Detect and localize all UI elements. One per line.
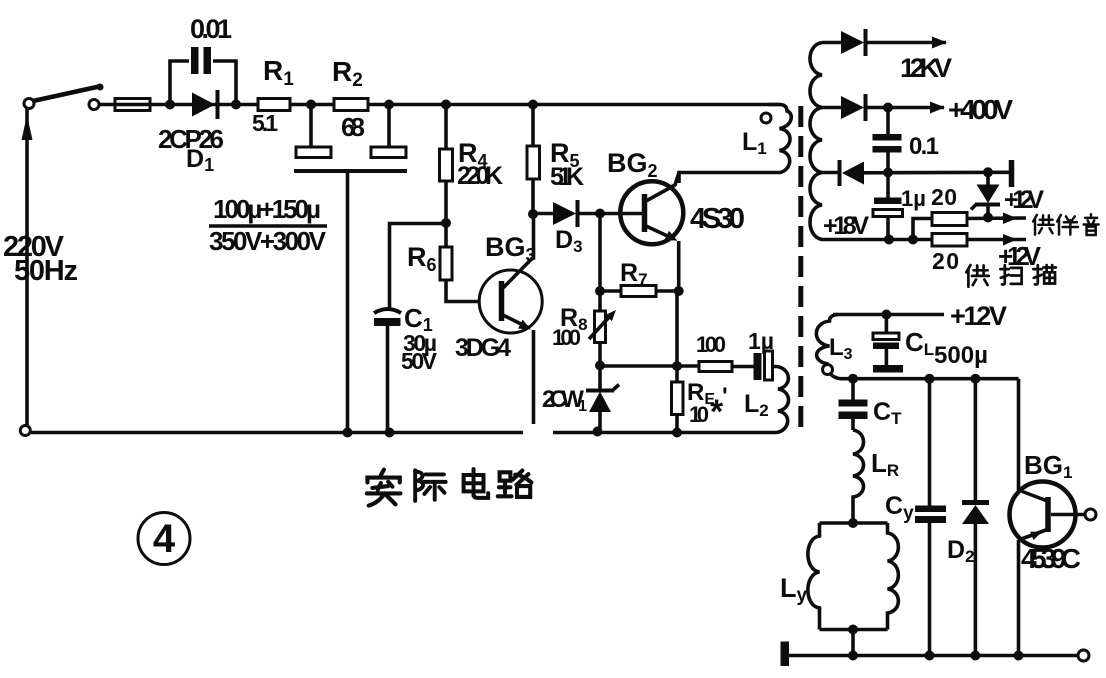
- node upper20 left: [908, 235, 918, 245]
- inductor L3: [816, 315, 841, 379]
- circled 4: [138, 513, 190, 565]
- yoke Ly: [808, 523, 899, 656]
- svg-text:10: 10: [689, 402, 709, 427]
- diode D2: [962, 379, 989, 656]
- switch S: [33, 84, 104, 110]
- svg-text:12KV: 12KV: [900, 53, 952, 83]
- svg-text:350V+300V: 350V+300V: [209, 226, 327, 256]
- capacitor 1u secondary: [873, 173, 903, 240]
- wire: [732, 365, 754, 369]
- resistor R4 220K: [440, 105, 453, 224]
- svg-text:100: 100: [696, 332, 726, 357]
- node rail RE: [672, 428, 682, 438]
- diode rectifier +400V: [822, 94, 945, 121]
- node D2: [970, 374, 980, 384]
- capacitor 1u damping: [754, 351, 773, 380]
- transformer core dashed: [798, 106, 803, 427]
- node R7 left: [595, 286, 605, 296]
- diode tap3 left-pointing: [822, 160, 1009, 186]
- node rail C1: [385, 428, 395, 438]
- capacitor CL 500u: [873, 315, 903, 373]
- 220V 50Hz source arrow: [22, 109, 33, 425]
- wire +12V line L3: [833, 313, 944, 317]
- svg-text:50V: 50V: [401, 348, 438, 374]
- svg-text:4: 4: [153, 517, 176, 561]
- caption: shi ji dian lu: [367, 469, 532, 505]
- resistor R8 100 adjustable: [589, 291, 616, 366]
- svg-text:100µ+150µ: 100µ+150µ: [213, 194, 321, 224]
- node A3: [306, 100, 316, 110]
- node R4-R6: [441, 218, 451, 228]
- ground rail bottom right: [781, 642, 1090, 667]
- inductor L1 primary: [679, 105, 791, 184]
- wire to C1: [390, 224, 447, 309]
- svg-text:20: 20: [932, 248, 959, 274]
- resistor 20 upper: [913, 213, 1026, 240]
- node rail 2CW1: [593, 427, 603, 437]
- node top R4: [441, 100, 451, 110]
- capacitor Cy: [915, 379, 946, 656]
- node A4: [384, 100, 394, 110]
- svg-text:100: 100: [552, 325, 581, 350]
- resistor RE 10: [672, 291, 684, 433]
- wire bottom rail mid: [553, 431, 777, 435]
- node rail BG1: [1014, 651, 1024, 661]
- node top R5: [528, 100, 538, 110]
- node Ly bottom: [848, 625, 858, 635]
- resistor R5 51K: [527, 105, 540, 215]
- node CT: [848, 374, 858, 384]
- resistor 100 damping: [699, 362, 732, 372]
- svg-text:0.01: 0.01: [190, 14, 232, 44]
- node A2: [231, 100, 241, 110]
- capacitor CT: [839, 379, 868, 430]
- inductor LR: [853, 430, 864, 523]
- svg-text:68: 68: [341, 112, 365, 142]
- transistor BG1 4539C: [1010, 379, 1097, 656]
- svg-text:5.1: 5.1: [252, 110, 278, 136]
- AC input terminal bottom: [20, 426, 30, 436]
- svg-text:3DG4: 3DG4: [455, 334, 511, 362]
- node rail D2: [970, 651, 980, 661]
- label gong ban yin: [1033, 214, 1098, 235]
- svg-text:2CW1: 2CW1: [542, 386, 587, 415]
- label gong sao miao: [966, 265, 1055, 287]
- zener 2CW1: [586, 366, 619, 433]
- resistor R1 5.1: [258, 99, 290, 111]
- svg-text:1µ: 1µ: [748, 328, 774, 354]
- AC input terminal top: [24, 99, 34, 109]
- capacitor 0.1: [873, 108, 902, 173]
- node R7 right: [674, 286, 684, 296]
- wire top rail: [99, 103, 780, 107]
- wire damping chain: [600, 364, 699, 368]
- wire bottom rail left: [31, 431, 523, 435]
- node Ly top: [848, 518, 858, 528]
- diode D1 2CP26: [192, 90, 218, 119]
- svg-text:': ': [722, 383, 728, 410]
- node 0.1 bottom: [883, 168, 893, 178]
- zener diode +12V: [971, 173, 1000, 218]
- node R8 bottom: [595, 361, 605, 371]
- svg-text:20: 20: [931, 184, 957, 210]
- svg-text:0.1: 0.1: [909, 133, 939, 160]
- node 400V tap: [883, 103, 893, 113]
- node RE top: [672, 361, 682, 371]
- resistor R6: [440, 223, 479, 302]
- filter capacitor 100u+150u: [294, 109, 407, 433]
- node R5-D3: [528, 209, 538, 219]
- node zener bottom: [983, 213, 993, 223]
- svg-text:500µ: 500µ: [934, 342, 988, 369]
- svg-text:4S30: 4S30: [690, 203, 745, 235]
- svg-text:50Hz: 50Hz: [14, 255, 78, 287]
- capacitor 0.01 bypass loop: [170, 47, 236, 104]
- transistor BG3 3DG4: [479, 214, 542, 424]
- svg-text:220K: 220K: [457, 162, 503, 190]
- svg-text:+18V: +18V: [823, 212, 869, 240]
- fuse: [115, 99, 150, 111]
- node rail Cy: [925, 651, 935, 661]
- svg-text:+400V: +400V: [948, 94, 1013, 125]
- capacitor C1 30u 50V: [374, 309, 401, 433]
- node 1u bottom rail: [884, 235, 894, 245]
- svg-text:+12V: +12V: [950, 301, 1007, 331]
- transistor BG2 4S30: [620, 173, 683, 292]
- wire BG2 base vertical: [598, 214, 602, 292]
- inductor L2: [773, 367, 789, 433]
- diode D3: [533, 200, 643, 227]
- resistor R2 68: [334, 99, 368, 111]
- svg-text:51K: 51K: [550, 163, 584, 191]
- diode rectifier 12KV: [822, 29, 947, 56]
- node zener top: [983, 167, 993, 177]
- node CL top: [881, 310, 891, 320]
- wire horiz deflection bus: [841, 377, 1019, 381]
- resistor R7: [600, 286, 679, 297]
- node D3-BG2 base: [595, 209, 605, 219]
- svg-text:+12V: +12V: [1004, 186, 1044, 214]
- svg-text:1µ: 1µ: [901, 186, 926, 211]
- node Cy: [925, 374, 935, 384]
- node A1: [165, 100, 175, 110]
- resistor 20 lower: [932, 234, 1026, 247]
- terminal T-bar: [1009, 160, 1015, 187]
- node rail filtercap: [343, 428, 353, 438]
- secondary winding: [810, 43, 932, 240]
- node rail Ly: [848, 651, 858, 661]
- svg-text:4539C: 4539C: [1021, 543, 1081, 574]
